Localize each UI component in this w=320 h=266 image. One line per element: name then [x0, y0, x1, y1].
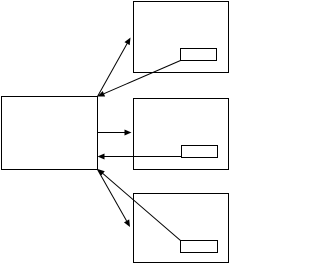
inner rect of middle-right box: [182, 146, 218, 158]
node bottom-right box: [134, 194, 229, 263]
node middle-right box: [134, 99, 229, 170]
node left box: [2, 97, 98, 170]
inner rect of top-right box: [181, 49, 217, 61]
node top-right box: [134, 2, 229, 73]
wire arrow B: top inner rect to left box corner: [98, 61, 181, 97]
inner rect of bottom-right box: [181, 241, 218, 253]
wire arrow E: left box corner to bottom-right box edge: [98, 170, 131, 228]
wire arrow C: left box edge to middle-right box edge: [98, 130, 132, 136]
wire arrow A: left box corner to top-right box edge: [98, 38, 131, 97]
wire arrow D: middle inner rect to left box edge: [98, 154, 183, 160]
wire arrow F: bottom inner rect to left box corner: [98, 169, 181, 241]
